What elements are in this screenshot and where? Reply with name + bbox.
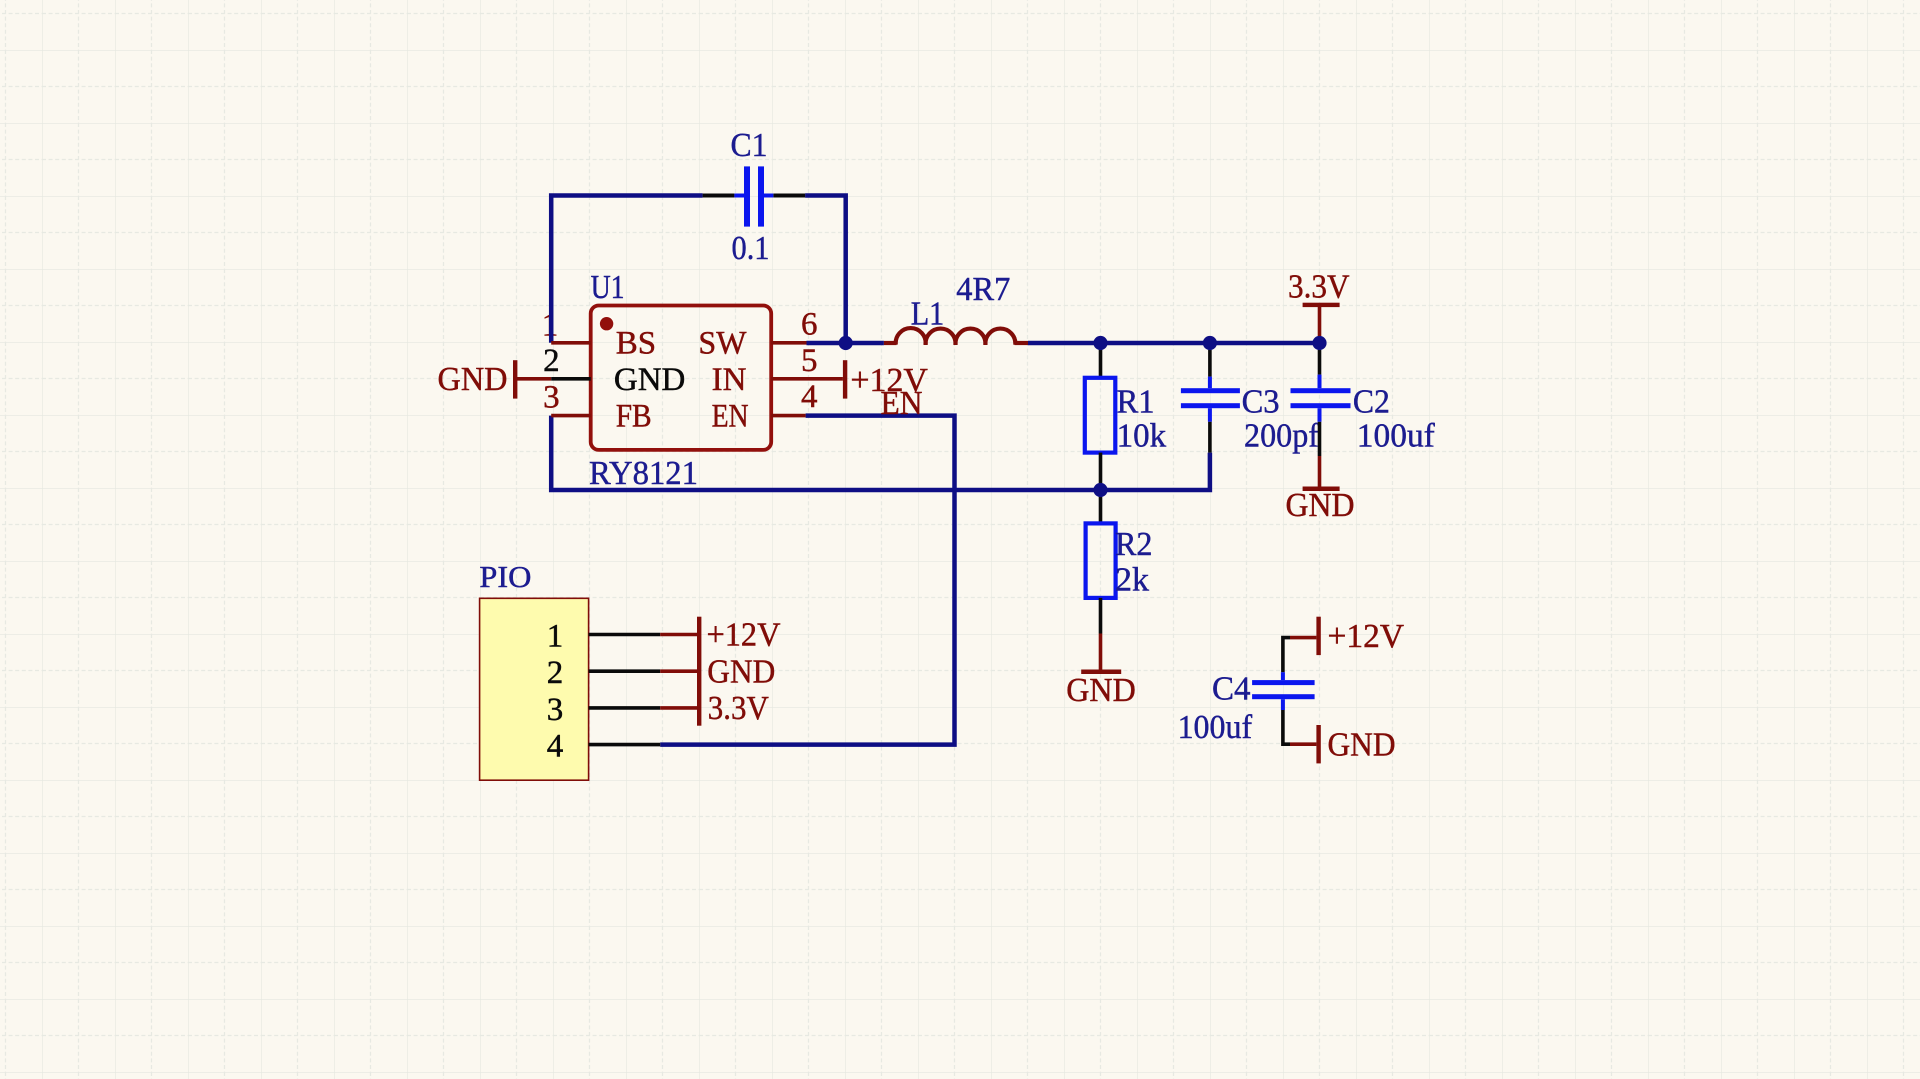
svg-text:FB: FB <box>616 399 652 435</box>
svg-text:GND: GND <box>1066 672 1136 709</box>
svg-text:2: 2 <box>543 343 560 379</box>
svg-text:6: 6 <box>801 307 818 343</box>
svg-text:BS: BS <box>616 326 656 362</box>
svg-text:3.3V: 3.3V <box>1288 269 1350 306</box>
svg-text:200pf: 200pf <box>1244 418 1320 455</box>
svg-text:2k: 2k <box>1115 562 1149 599</box>
svg-text:C4: C4 <box>1212 670 1251 707</box>
svg-text:100uf: 100uf <box>1178 709 1253 746</box>
svg-text:RY8121: RY8121 <box>589 455 698 492</box>
svg-text:PIO: PIO <box>479 559 531 594</box>
svg-text:+12V: +12V <box>1328 618 1405 655</box>
svg-text:3: 3 <box>547 692 564 728</box>
svg-text:4R7: 4R7 <box>956 271 1010 308</box>
svg-text:L1: L1 <box>911 296 945 333</box>
svg-text:3: 3 <box>543 379 560 415</box>
svg-text:C1: C1 <box>731 127 768 164</box>
svg-text:GND: GND <box>614 362 686 398</box>
svg-text:3.3V: 3.3V <box>708 690 769 727</box>
svg-text:10k: 10k <box>1117 418 1167 455</box>
svg-text:GND: GND <box>1328 727 1396 764</box>
svg-text:U1: U1 <box>591 269 625 306</box>
svg-text:C2: C2 <box>1353 384 1390 421</box>
svg-text:GND: GND <box>707 653 775 690</box>
svg-text:GND: GND <box>438 361 508 398</box>
svg-text:1: 1 <box>547 619 564 655</box>
svg-text:C3: C3 <box>1242 384 1280 421</box>
svg-text:4: 4 <box>547 729 564 765</box>
svg-text:2: 2 <box>547 655 564 691</box>
svg-text:R1: R1 <box>1117 384 1155 421</box>
svg-text:0.1: 0.1 <box>732 230 770 267</box>
svg-text:IN: IN <box>712 362 747 398</box>
svg-text:GND: GND <box>1286 487 1355 524</box>
svg-text:SW: SW <box>698 326 747 362</box>
svg-text:5: 5 <box>801 343 818 379</box>
svg-text:4: 4 <box>801 379 818 415</box>
svg-text:+12V: +12V <box>707 617 781 654</box>
svg-text:EN: EN <box>712 399 749 435</box>
svg-text:R2: R2 <box>1115 526 1153 563</box>
svg-text:100uf: 100uf <box>1357 418 1436 455</box>
svg-text:EN: EN <box>881 385 923 422</box>
